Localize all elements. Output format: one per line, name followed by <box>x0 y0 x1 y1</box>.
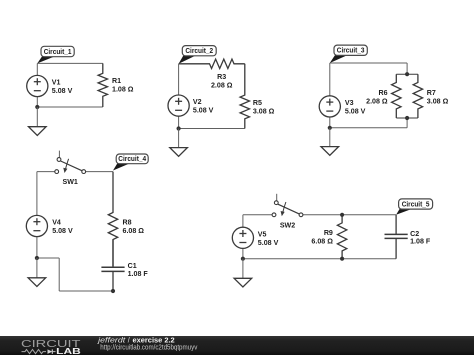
svg-text:LAB: LAB <box>56 347 81 355</box>
svg-text:Circuit_5: Circuit_5 <box>402 199 430 208</box>
svg-text:1.08 F: 1.08 F <box>128 270 149 278</box>
svg-text:exercise 2.2: exercise 2.2 <box>133 336 175 344</box>
svg-text:6.08 Ω: 6.08 Ω <box>311 237 333 245</box>
svg-text:5.08 V: 5.08 V <box>258 239 279 247</box>
svg-text:2.08 Ω: 2.08 Ω <box>366 98 388 106</box>
svg-text:V2: V2 <box>193 98 202 106</box>
svg-text:V5: V5 <box>258 230 267 238</box>
svg-text:5.08 V: 5.08 V <box>52 87 73 95</box>
svg-text:Circuit_3: Circuit_3 <box>337 46 365 55</box>
svg-text:1.08 F: 1.08 F <box>410 238 431 246</box>
svg-text:Circuit_2: Circuit_2 <box>185 46 213 55</box>
svg-text:2.08 Ω: 2.08 Ω <box>211 82 233 90</box>
svg-text:V4: V4 <box>52 219 61 227</box>
svg-text:SW1: SW1 <box>63 178 78 186</box>
svg-text:Circuit_4: Circuit_4 <box>118 154 147 163</box>
svg-text:5.08 V: 5.08 V <box>345 107 366 115</box>
svg-text:http://circuitlab.com/c2td5bqt: http://circuitlab.com/c2td5bqtpmuyv <box>100 344 197 351</box>
svg-text:jefferdt: jefferdt <box>97 336 127 344</box>
svg-text:1.08 Ω: 1.08 Ω <box>112 86 134 94</box>
svg-text:5.08 V: 5.08 V <box>52 227 73 235</box>
svg-text:R1: R1 <box>112 77 121 85</box>
svg-text:Circuit_1: Circuit_1 <box>44 47 72 56</box>
svg-text:SW2: SW2 <box>280 221 295 229</box>
svg-text:R3: R3 <box>217 73 226 81</box>
svg-text:C1: C1 <box>128 262 137 270</box>
svg-text:6.08 Ω: 6.08 Ω <box>123 227 145 235</box>
svg-text:R7: R7 <box>427 89 436 97</box>
svg-text:3.08 Ω: 3.08 Ω <box>427 98 449 106</box>
svg-text:V3: V3 <box>345 99 354 107</box>
svg-text:V1: V1 <box>52 79 61 87</box>
svg-text:R8: R8 <box>123 219 132 227</box>
svg-text:3.08 Ω: 3.08 Ω <box>253 108 275 116</box>
svg-text:R5: R5 <box>253 99 262 107</box>
svg-text:R6: R6 <box>379 89 388 97</box>
svg-text:R9: R9 <box>324 229 333 237</box>
svg-text:/: / <box>128 336 130 344</box>
svg-text:5.08 V: 5.08 V <box>193 107 214 115</box>
